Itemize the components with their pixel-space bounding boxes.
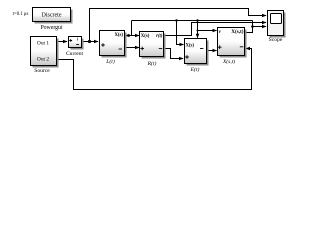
svg-text:X(s): X(s) <box>114 33 123 38</box>
svg-text:Out 1: Out 1 <box>37 41 49 47</box>
svg-text:Scope: Scope <box>269 37 283 43</box>
svg-text:E(t): E(t) <box>190 66 200 73</box>
svg-text:X(s): X(s) <box>186 43 195 48</box>
svg-text:r(t): r(t) <box>156 34 163 39</box>
svg-text:Powergui: Powergui <box>40 25 63 31</box>
svg-text:L(t): L(t) <box>105 58 115 65</box>
svg-text:R(t): R(t) <box>147 60 157 67</box>
svg-text:X(s): X(s) <box>141 34 150 39</box>
svg-text:Source: Source <box>34 68 50 74</box>
svg-text:X(s,t): X(s,t) <box>222 58 235 65</box>
svg-text:Current: Current <box>66 51 84 57</box>
svg-text:Out 2: Out 2 <box>37 57 49 63</box>
svg-text:X(s,t): X(s,t) <box>231 28 244 35</box>
svg-text:Discrete: Discrete <box>42 12 62 18</box>
svg-text:t=0.1 μs: t=0.1 μs <box>13 12 29 17</box>
